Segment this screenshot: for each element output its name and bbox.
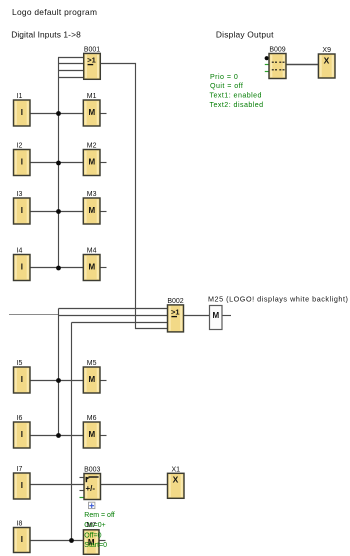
wire B001 input stub 4 <box>58 77 84 79</box>
svg-text:>1: >1 <box>87 56 96 65</box>
wire B009 to X9 <box>286 64 318 66</box>
svg-text:I: I <box>21 430 23 439</box>
svg-text:B001: B001 <box>84 47 100 54</box>
wire I6 to M6 <box>30 435 83 437</box>
wire M5 output stub <box>100 380 107 382</box>
wire M2 output stub <box>100 162 107 164</box>
wire B002 output to M25 <box>184 315 210 317</box>
wire I2 to M2 <box>30 162 83 164</box>
svg-text:Text1: enabled: Text1: enabled <box>210 92 262 100</box>
svg-text:X9: X9 <box>322 47 331 54</box>
node junction I3 bus <box>56 209 61 214</box>
svg-text:M1: M1 <box>87 93 97 100</box>
block M1 marker <box>83 93 100 126</box>
wire M6 output stub <box>100 435 107 437</box>
svg-text:X1: X1 <box>171 467 180 474</box>
svg-text:I: I <box>21 481 23 490</box>
wire B002 input 2 <box>59 315 168 317</box>
block M2 marker <box>83 143 100 176</box>
svg-text:I: I <box>21 535 23 544</box>
wire I5 to M5 <box>30 380 83 382</box>
node junction I1 bus <box>56 111 61 116</box>
svg-text:I: I <box>21 263 23 272</box>
block X1 open connector output <box>168 467 185 499</box>
node junction I8 bus <box>69 538 74 543</box>
svg-text:M: M <box>88 430 95 439</box>
block M4 marker <box>83 248 100 281</box>
svg-text:I: I <box>21 158 23 167</box>
svg-text:Display Output: Display Output <box>216 30 274 40</box>
wire M1 output stub <box>100 113 107 115</box>
svg-text:X: X <box>173 475 179 485</box>
svg-text:M25 (LOGO! displays white back: M25 (LOGO! displays white backlight) <box>208 294 348 303</box>
block I3 digital input <box>14 191 31 224</box>
wire bus I8 to B002 input 3 <box>71 323 73 541</box>
svg-text:M: M <box>88 108 95 117</box>
svg-text:Quit = off: Quit = off <box>210 82 243 90</box>
wire B003 output to X1 <box>101 484 168 486</box>
wire B001 input stub 2 <box>58 63 84 65</box>
block I6 digital input <box>14 415 31 448</box>
svg-text:M5: M5 <box>87 360 97 367</box>
op-amp U2 OR gate B002 <box>167 298 183 332</box>
op-amp U1 OR gate B001 <box>84 47 101 80</box>
wire I7 to B003 input 2 <box>30 484 84 486</box>
svg-text:M: M <box>212 311 219 320</box>
wire B009 input stub green 1 <box>265 64 269 66</box>
wire M4 output stub <box>100 267 107 269</box>
svg-text:B002: B002 <box>167 298 183 305</box>
wire M3 output stub <box>100 211 107 213</box>
wire I1 to M1 <box>30 113 83 115</box>
block M3 marker <box>83 191 100 224</box>
node junction I4 bus <box>56 266 61 271</box>
wire B002 input 3 from I8 <box>72 322 168 324</box>
svg-text:X: X <box>324 56 330 66</box>
svg-text:Digital Inputs 1->8: Digital Inputs 1->8 <box>11 29 81 39</box>
wire bus I5-I6 to B002 <box>58 309 60 436</box>
svg-text:I3: I3 <box>17 191 23 198</box>
svg-text:M7: M7 <box>86 522 96 529</box>
block M7 marker <box>83 530 99 555</box>
svg-text:B009: B009 <box>269 47 285 54</box>
svg-text:M: M <box>88 206 95 215</box>
svg-text:M6: M6 <box>87 415 97 422</box>
block I7 digital input <box>14 466 31 499</box>
block M25 output marker <box>210 306 223 330</box>
svg-text:B003: B003 <box>84 467 100 474</box>
wire I3 to M3 <box>30 211 83 213</box>
wire B001 output to B002 input 4 <box>100 64 167 329</box>
block I5 digital input <box>14 360 31 393</box>
node junction I6 bus <box>56 433 61 438</box>
block I2 digital input <box>14 143 31 176</box>
svg-text:Start=0: Start=0 <box>84 542 107 549</box>
svg-text:Logo default program: Logo default program <box>12 7 97 17</box>
wire B009 input stub green 2 <box>265 71 269 73</box>
wire I4 to M4 <box>30 267 83 269</box>
block B009 message text <box>269 47 286 79</box>
svg-text:I1: I1 <box>17 93 23 100</box>
block B003 up-down counter <box>84 467 101 500</box>
svg-text:M: M <box>88 263 95 272</box>
svg-text:M3: M3 <box>87 191 97 198</box>
block B003 expand button <box>89 502 95 508</box>
svg-text:I: I <box>21 375 23 384</box>
wire B002 input 1 from I5 <box>59 308 168 310</box>
wire stub left of B002 input 2 <box>9 314 59 316</box>
node junction I2 bus <box>56 161 61 166</box>
wire M7 output stub <box>99 540 106 542</box>
block X9 open connector output <box>318 47 335 78</box>
svg-text:M4: M4 <box>87 248 97 255</box>
svg-text:I4: I4 <box>17 248 23 255</box>
block M5 marker <box>83 360 100 393</box>
svg-text:I: I <box>21 206 23 215</box>
node B009 negation dot <box>265 56 269 60</box>
svg-text:I7: I7 <box>17 466 23 473</box>
block M6 marker <box>83 415 100 448</box>
svg-text:Prio = 0: Prio = 0 <box>210 73 238 81</box>
svg-text:M: M <box>88 158 95 167</box>
svg-text:I5: I5 <box>17 360 23 367</box>
svg-text:Rem = off: Rem = off <box>84 512 114 519</box>
node junction I5 bus <box>56 378 61 383</box>
wire I8 to M7 <box>30 540 83 542</box>
wire M25 output stub <box>222 315 231 317</box>
svg-text:M2: M2 <box>87 143 97 150</box>
wire B003 parameter stub green <box>80 497 85 499</box>
svg-text:I8: I8 <box>17 521 23 528</box>
svg-text:>1: >1 <box>171 308 180 317</box>
wire B001 input stub 3 <box>58 70 84 72</box>
svg-text:I6: I6 <box>17 415 23 422</box>
block I1 digital input <box>14 93 31 126</box>
wire B003 input stub 3 <box>80 490 85 492</box>
svg-text:M: M <box>88 375 95 384</box>
svg-text:I2: I2 <box>17 143 23 150</box>
wire B003 input stub 1 <box>80 477 85 479</box>
wire input bus I1-I4 to B001 <box>58 58 60 268</box>
wire B001 input stub 1 <box>58 57 84 59</box>
svg-text:Text2: disabled: Text2: disabled <box>210 101 264 109</box>
block I8 digital input <box>14 521 31 553</box>
svg-text:+/-: +/- <box>86 484 96 493</box>
block I4 digital input <box>14 248 31 281</box>
svg-text:Off=0: Off=0 <box>84 532 101 539</box>
svg-text:I: I <box>21 108 23 117</box>
